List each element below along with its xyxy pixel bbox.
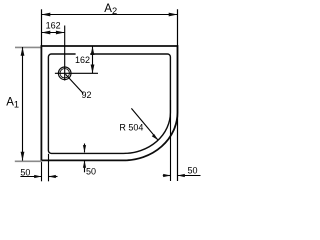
bottom-right 50 left shaft <box>163 175 171 177</box>
drain outer circle <box>58 67 71 80</box>
bottom-right 50 left-pointing arrowhead <box>178 174 185 177</box>
A1 top arrowhead <box>21 47 25 56</box>
A2 left arrowhead <box>42 13 51 17</box>
bottom-left 50 left-pointing arrowhead <box>49 175 56 178</box>
svg-text:50: 50 <box>20 168 30 178</box>
bottom-center 50 upper shaft <box>84 144 86 153</box>
svg-text:162: 162 <box>46 21 61 31</box>
A1 bottom extension line (grey) <box>15 160 42 162</box>
bottom-right 50 right-pointing arrowhead <box>163 174 170 177</box>
extension line inner right edge down to bottom-right 50 dim <box>170 100 172 181</box>
bottom-right 50 dimension line with underline <box>178 175 201 177</box>
inner tray outline <box>48 54 170 153</box>
162 vertical label white mask <box>76 53 91 63</box>
svg-text:A2: A2 <box>104 3 117 16</box>
R 504 leader line <box>131 108 158 140</box>
A1 top extension line (grey) <box>15 46 41 48</box>
extension line outer left edge down to bottom-left 50 dim <box>41 160 43 181</box>
drain crosshair horizontal / extension for vertical 162 dim <box>55 72 98 74</box>
outer tray outline <box>41 46 177 160</box>
svg-text:162: 162 <box>75 55 90 65</box>
svg-text:R 504: R 504 <box>119 123 143 133</box>
extension line right (A2 down to bottom-right 50 dim) <box>177 9 179 181</box>
162 vertical dimension line <box>92 46 94 73</box>
svg-text:50: 50 <box>188 166 198 176</box>
svg-text:A1: A1 <box>6 97 19 110</box>
bottom-left 50 shaft right of span <box>49 176 58 178</box>
bottom-center 50 lower shaft <box>84 160 86 172</box>
162 top right arrowhead <box>56 31 65 35</box>
drain crosshair vertical / extension for top 162 dim <box>64 26 66 81</box>
A2 right arrowhead <box>169 13 178 17</box>
svg-text:50: 50 <box>86 167 96 177</box>
A2 dimension line <box>42 14 178 16</box>
162 top left arrowhead <box>42 31 51 35</box>
92 leader line <box>66 74 84 93</box>
bottom-center 50 down arrowhead <box>83 145 86 152</box>
svg-text:92: 92 <box>82 90 92 100</box>
bottom-center 50 up arrowhead <box>83 160 86 167</box>
extension line inner left edge down to bottom-left 50 dim <box>48 154 50 182</box>
extension line left (A2 / tray left edge up) <box>41 9 43 46</box>
A1 bottom arrowhead <box>21 152 25 161</box>
162 top dimension line <box>42 32 65 34</box>
162 vertical top arrowhead <box>91 46 95 55</box>
R 504 leader arrowhead <box>152 134 158 140</box>
162 vertical bottom arrowhead <box>91 65 95 74</box>
A1 dimension line <box>22 47 24 161</box>
bottom-left 50 dimension line with underline <box>20 176 41 178</box>
drain inner circle <box>60 69 69 78</box>
bottom-left 50 right-pointing arrowhead <box>34 175 41 178</box>
